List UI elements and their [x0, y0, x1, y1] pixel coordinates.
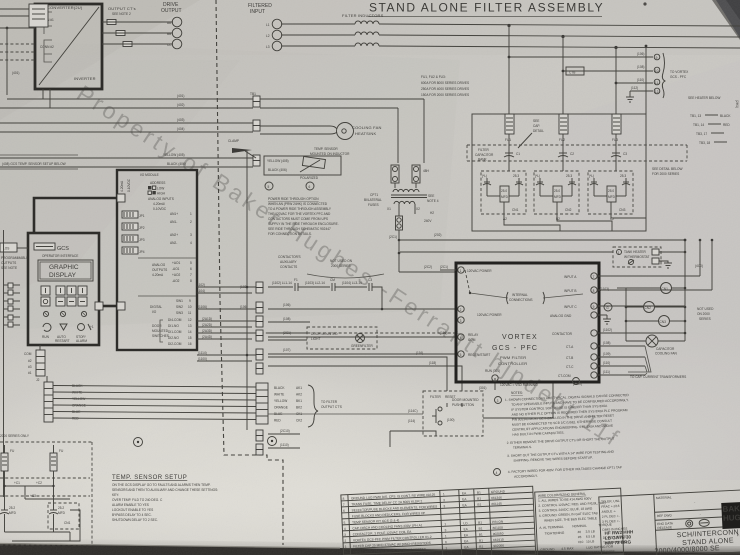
detail wires upper	[3, 471, 70, 504]
baker hughes logo block	[721, 502, 740, 529]
svg-text:CPT1: CPT1	[370, 193, 378, 197]
vortex terminal 5 regen start	[458, 351, 491, 357]
detail cap A	[0, 504, 17, 532]
svg-text:+1: +1	[90, 325, 94, 329]
svg-text:RED: RED	[274, 419, 281, 423]
svg-text:2: 2	[460, 308, 462, 312]
svg-text:SEE: SEE	[428, 194, 434, 198]
svg-text:902050: 902050	[493, 532, 504, 536]
svg-text:(202): (202)	[434, 233, 441, 237]
temp sensor label	[310, 147, 350, 156]
svg-text:+AO2: +AO2	[172, 273, 180, 277]
svg-text:ANALOG INPUTS: ANALOG INPUTS	[148, 197, 174, 201]
detail cap band dashed	[0, 478, 90, 496]
ground ref wire 112	[630, 86, 653, 97]
title block	[599, 490, 740, 555]
svg-text:LIGHT: LIGHT	[311, 337, 320, 341]
svg-text:ANALOG GND: ANALOG GND	[550, 314, 572, 318]
svg-text:TEMP. SENSOR: TEMP. SENSOR	[314, 147, 338, 151]
cap detail box B	[534, 171, 579, 214]
fuse below CPT1	[389, 211, 403, 239]
svg-text:150A FOR 2000 SERIES DRIVES: 150A FOR 2000 SERIES DRIVES	[421, 93, 469, 97]
wire 402 to CPT drop	[260, 108, 398, 163]
svg-text:TEMP. SENSOR SETUP: TEMP. SENSOR SETUP	[112, 475, 187, 481]
svg-text:BLACK: BLACK	[274, 386, 285, 390]
svg-text:4.5 MAX: 4.5 MAX	[561, 546, 574, 551]
I/O module title	[140, 173, 159, 177]
tank heater dashed box	[613, 247, 661, 267]
svg-text:0-10VDC: 0-10VDC	[153, 207, 167, 211]
svg-text:#2: #2	[28, 359, 32, 363]
TB1 terminals 405/406	[253, 155, 260, 166]
svg-text:DI2-COM: DI2-COM	[168, 342, 182, 346]
label (401) left	[12, 71, 19, 75]
vortex terminal input B	[564, 287, 597, 293]
svg-text:(401): (401)	[12, 71, 19, 75]
svg-text:C1: C1	[516, 152, 520, 156]
TB pair 2 below color block	[256, 443, 300, 455]
not used 2000 series right	[697, 307, 714, 321]
svg-text:AK2: AK2	[296, 393, 302, 397]
svg-text:B1: B1	[477, 491, 481, 495]
svg-text:1/16: 1/16	[613, 504, 620, 508]
wire 118 down to pushbutton	[268, 361, 462, 391]
bracket to vortex gcs pfc	[662, 53, 689, 98]
svg-text:I/O: I/O	[152, 310, 157, 314]
wire 401	[7, 94, 253, 99]
TB1 terminals 401/402	[253, 96, 260, 107]
color wire terminal block right	[256, 383, 268, 424]
svg-text:MATERIAL: MATERIAL	[656, 495, 672, 500]
fuse drop A	[508, 25, 510, 114]
vortex CT-B	[566, 352, 645, 360]
COM terminal strip under GCS	[24, 345, 47, 382]
indicator fuse F1	[391, 165, 399, 183]
cap symbol phase C	[611, 134, 627, 171]
svg-text:G: G	[606, 306, 609, 310]
svg-text:FOR CONNECTION DETAILS.: FOR CONNECTION DETAILS.	[268, 232, 312, 236]
svg-text:INPUT B: INPUT B	[564, 289, 577, 293]
heater below note	[688, 96, 720, 100]
svg-text:(107): (107)	[283, 348, 290, 352]
svg-text:REGEN/START: REGEN/START	[468, 353, 490, 357]
svg-text:6: 6	[445, 540, 447, 544]
svg-text:#6: #6	[578, 530, 582, 534]
svg-text:INVERTER: INVERTER	[74, 76, 96, 81]
power ride through note	[268, 197, 339, 236]
svg-text:+C3: +C3	[30, 494, 36, 498]
svg-text:10 LB: 10 LB	[586, 539, 595, 543]
svg-text:MOUNTED ON INDUCTOR: MOUNTED ON INDUCTOR	[310, 152, 350, 156]
svg-text:BK1: BK1	[296, 399, 302, 403]
svg-text:OUTPUTS: OUTPUTS	[152, 268, 167, 272]
jumper JP2	[122, 223, 145, 230]
door mounted pushbutton label	[452, 398, 479, 407]
svg-text:SEE HEATER BELOW: SEE HEATER BELOW	[688, 96, 720, 100]
svg-text:OPERATOR INTERFACE: OPERATOR INTERFACE	[42, 254, 78, 258]
vortex CT-COM	[558, 370, 645, 378]
IO analog outputs	[138, 258, 196, 283]
svg-text:NOMINAL: NOMINAL	[572, 524, 587, 529]
svg-text:ACCORDINGLY.: ACCORDINGLY.	[514, 474, 538, 479]
svg-text:CONNECTIONS: CONNECTIONS	[509, 298, 533, 302]
svg-text:CAP.: CAP.	[533, 124, 540, 128]
cap detail box C	[588, 171, 633, 214]
svg-text:(109): (109)	[603, 352, 610, 356]
I/O address block	[148, 181, 174, 211]
svg-text:TO A POWER RIDE THROUGH ASSEMB: TO A POWER RIDE THROUGH ASSEMBLY	[268, 207, 332, 211]
output CT wire labels AK BK CK	[296, 386, 302, 423]
svg-text:CTB: CTB	[569, 71, 575, 75]
svg-text:#8: #8	[578, 535, 582, 539]
svg-text:(106): (106)	[440, 331, 447, 335]
right edge labels TB	[690, 114, 731, 145]
svg-text:2: 2	[575, 380, 577, 384]
aux contact row	[268, 278, 382, 309]
color wire terminal block left	[36, 378, 53, 422]
svg-text:(2H1): (2H1)	[735, 100, 739, 108]
IO to TB wires	[197, 287, 256, 361]
svg-text:(112): (112)	[631, 86, 638, 90]
rotated label H1	[735, 100, 739, 108]
color labels right of block	[274, 386, 288, 423]
svg-text:MFD: MFD	[58, 511, 66, 515]
svg-text:AN1+: AN1+	[170, 212, 178, 216]
wire color sizing general block	[535, 488, 624, 555]
node at x7 y28	[0, 27, 35, 95]
svg-text:J2: J2	[36, 378, 40, 382]
top-right dark corner	[716, 0, 740, 38]
jumper JP4	[122, 247, 145, 254]
svg-text:TB3, 18: TB3, 18	[699, 141, 710, 145]
wire 402	[0, 103, 253, 108]
svg-text:BLACK (406): BLACK (406)	[268, 168, 287, 172]
wire 406 black	[0, 162, 253, 167]
phase C drive output node	[167, 39, 182, 49]
svg-text:C3: C3	[368, 278, 372, 282]
svg-text:(106): (106)	[637, 52, 644, 56]
svg-text:SW1: SW1	[176, 299, 183, 303]
svg-text:ADDRESS: ADDRESS	[150, 181, 165, 185]
watermark	[72, 80, 626, 452]
svg-text:(404): (404)	[177, 127, 184, 131]
svg-text:KEY:: KEY:	[112, 493, 119, 497]
vortex terminal 4 relay com	[458, 333, 479, 342]
label output cts	[108, 6, 136, 16]
svg-text:25.0: 25.0	[501, 189, 507, 193]
2000 series detail dashed box	[0, 442, 92, 545]
svg-text:DOOR: DOOR	[152, 324, 162, 328]
svg-text:STAND ALONE FILTER ASSEMBLY: STAND ALONE FILTER ASSEMBLY	[369, 1, 604, 15]
svg-text:L2: L2	[266, 34, 270, 38]
svg-text:FU: FU	[59, 449, 64, 453]
svg-text:MFD: MFD	[501, 195, 509, 199]
svg-text:HAS BUILT-IN PWM CAPABILITIES.: HAS BUILT-IN PWM CAPABILITIES.	[512, 431, 564, 437]
TB column terminals 107	[256, 349, 263, 360]
fuse note text	[421, 75, 469, 97]
svg-text:GCS - PFC: GCS - PFC	[670, 75, 687, 79]
svg-text:REF DWG: REF DWG	[657, 513, 673, 518]
wire 106 to vortex	[268, 303, 456, 310]
svg-text:ALARM ENABLE TO YES: ALARM ENABLE TO YES	[112, 503, 149, 507]
svg-text:HUG: HUG	[723, 513, 740, 523]
svg-text:HIGH: HIGH	[157, 192, 166, 196]
svg-text:16: 16	[188, 342, 192, 346]
vortex feed tap C	[615, 78, 653, 84]
svg-text:600A FOR 8000 SERIES DRIVES: 600A FOR 8000 SERIES DRIVES	[421, 81, 469, 85]
svg-text:SW2: SW2	[176, 305, 183, 309]
svg-text:250A FOR 4000 SERIES DRIVES: 250A FOR 4000 SERIES DRIVES	[421, 87, 469, 91]
svg-text:CAPACITOR: CAPACITOR	[656, 347, 675, 351]
svg-text:11: 11	[655, 81, 659, 85]
svg-text:FILTER: FILTER	[478, 148, 489, 152]
svg-text:(2C10): (2C10)	[280, 429, 290, 433]
TB column terminals 2C1	[256, 316, 263, 327]
svg-text:120VAC POWER: 120VAC POWER	[477, 313, 502, 317]
svg-text:YELLOW: YELLOW	[274, 399, 287, 403]
assembly boundary dashed line	[216, 0, 283, 545]
svg-text:LO: LO	[463, 521, 468, 525]
svg-text:1: 1	[445, 534, 447, 538]
svg-text:9: 9	[656, 56, 658, 60]
CPT1 label	[364, 193, 382, 207]
circled 7 marker	[134, 438, 143, 447]
color wire bundle	[53, 386, 256, 420]
svg-text:AN1-: AN1-	[170, 220, 177, 224]
svg-text:6: 6	[190, 267, 192, 271]
svg-text:INPUT A: INPUT A	[564, 275, 577, 279]
svg-text:LOCKOUT ENABLE TO YES: LOCKOUT ENABLE TO YES	[112, 508, 153, 512]
vortex analog gnd	[550, 312, 611, 324]
circled G right	[604, 303, 612, 311]
TB pair below color block	[256, 429, 300, 441]
svg-text:5: 5	[268, 185, 270, 189]
paper edge shadow above bottom cut	[0, 538, 740, 552]
circled 8 marker	[268, 437, 277, 446]
svg-text:+C2: +C2	[36, 481, 42, 485]
svg-text:WHITE: WHITE	[274, 393, 284, 397]
svg-text:661145: 661145	[491, 502, 502, 506]
svg-text:SENSORS AND THEN TO AUXILIARY: SENSORS AND THEN TO AUXILIARY AND CHANGE…	[112, 488, 218, 492]
svg-text:11: 11	[188, 311, 192, 315]
I/O rotated side label upper	[120, 178, 131, 192]
svg-text:4. FACTORY WIRED FOR 480V. FO: 4. FACTORY WIRED FOR 480V. FOR OTHER VOL…	[508, 465, 622, 474]
svg-text:(2C1): (2C1)	[440, 265, 448, 269]
GCS operator interface label	[42, 254, 78, 258]
svg-text:25.0: 25.0	[554, 189, 560, 193]
svg-text:4: 4	[344, 527, 346, 531]
svg-text:(114C): (114C)	[408, 409, 418, 413]
svg-text:661910: 661910	[493, 538, 504, 542]
svg-text:CAPACITOR: CAPACITOR	[475, 153, 494, 157]
svg-text:B1: B1	[478, 527, 482, 531]
fuse FU1	[505, 114, 514, 142]
GCS keypad buttons	[41, 286, 87, 306]
circled 4 marker	[494, 469, 501, 476]
svg-text:CONTACTORS MUST COME FROM UPS: CONTACTORS MUST COME FROM UPS	[268, 217, 328, 221]
svg-text:VORTEX: VORTEX	[502, 334, 538, 341]
svg-text:(402): (402)	[177, 103, 184, 107]
wire regen start to vortex	[268, 348, 456, 354]
svg-text:2. EITHER REMOVE THE DRIVE OU: 2. EITHER REMOVE THE DRIVE OUTPUT CT's O…	[507, 437, 615, 445]
svg-text:TO FILTER: TO FILTER	[321, 400, 338, 404]
contactor coil CN2	[625, 302, 685, 313]
svg-text:#3: #3	[28, 365, 32, 369]
svg-text:(108): (108)	[637, 65, 644, 69]
svg-text:1: 1	[345, 545, 347, 549]
svg-text:+C1: +C1	[14, 481, 20, 485]
svg-text:25.2: 25.2	[9, 506, 15, 510]
svg-text:ORANGE: ORANGE	[274, 406, 288, 410]
label 4C0	[695, 264, 703, 268]
svg-text:1: 1	[460, 269, 462, 273]
svg-text:COM: COM	[24, 352, 32, 356]
vortex CT-A	[566, 341, 645, 349]
transformer CPT1	[387, 183, 434, 223]
svg-text:CT-C: CT-C	[566, 365, 574, 369]
svg-text:A. AL TERMINAL: A. AL TERMINAL	[539, 525, 564, 530]
svg-text:3: 3	[497, 399, 499, 403]
svg-text:14: 14	[188, 330, 192, 334]
svg-text:(110): (110)	[637, 78, 644, 82]
wires into door light	[268, 333, 307, 340]
svg-text:2: 2	[344, 539, 346, 543]
L3 input node	[266, 41, 282, 51]
svg-text:1: 1	[444, 522, 446, 526]
vortex title	[492, 334, 538, 366]
TB1 terminals 403/404	[253, 120, 260, 131]
svg-text:13: 13	[188, 324, 192, 328]
svg-text:3: 3	[443, 498, 445, 502]
svg-text:GROUND: GROUND	[491, 489, 506, 494]
svg-text:0-10VDC: 0-10VDC	[127, 178, 131, 192]
wire phase B converter to node	[102, 32, 173, 34]
detail bottom wires	[5, 510, 81, 541]
wire 404	[0, 127, 253, 132]
title	[368, 1, 604, 17]
svg-text:FRAC +-: FRAC +-	[601, 504, 614, 509]
svg-text:-AO1: -AO1	[172, 267, 180, 271]
cap detail box A	[481, 171, 526, 214]
wire stub y430	[390, 431, 436, 447]
svg-text:FU1: FU1	[505, 138, 511, 142]
dashed wires into converter left	[0, 44, 35, 60]
bottom paper edge shadowline	[0, 544, 340, 549]
svg-text:(116): (116)	[416, 351, 423, 355]
svg-text:15: 15	[188, 336, 192, 340]
svg-text:B1: B1	[477, 497, 481, 501]
brace to filter output CTs	[308, 385, 342, 427]
svg-text:CT-COM: CT-COM	[558, 374, 571, 378]
svg-text:RED: RED	[723, 123, 730, 127]
phase exit labels A2 B2 C2	[503, 217, 614, 221]
svg-text:GCS - PFC: GCS - PFC	[492, 345, 538, 352]
svg-text:4: 4	[496, 471, 498, 475]
svg-text:SERIES: SERIES	[699, 317, 711, 321]
svg-text:RUN (301): RUN (301)	[485, 369, 500, 373]
contactor coil CN1	[626, 283, 685, 294]
svg-text:CLAMP: CLAMP	[228, 139, 239, 143]
svg-text:INPUT C: INPUT C	[564, 305, 577, 309]
svg-text:6.0 MAX: 6.0 MAX	[561, 551, 574, 555]
svg-text:(401): (401)	[177, 94, 184, 98]
svg-text:SEE DETAIL BELOW: SEE DETAIL BELOW	[652, 167, 682, 171]
clamp symbol	[228, 139, 256, 158]
svg-text:OUTPUT CT's: OUTPUT CT's	[108, 6, 136, 11]
vortex terminal 1	[458, 267, 492, 273]
svg-text:NOT USED ON: NOT USED ON	[330, 259, 353, 263]
2000 series only label	[0, 434, 30, 438]
svg-text:CONTACTS: CONTACTS	[280, 265, 297, 269]
svg-text:SEE RIDE THROUGH SCHEMATIC 902: SEE RIDE THROUGH SCHEMATIC 902447	[268, 227, 331, 231]
temp sensor setup body	[112, 483, 218, 522]
door mounted pushbutton box	[423, 391, 483, 436]
svg-text:PWM FILTER: PWM FILTER	[500, 355, 526, 360]
svg-text:(1103) LL2-14: (1103) LL2-14	[305, 281, 325, 285]
svg-text:CN3: CN3	[660, 320, 667, 324]
svg-text:5: 5	[344, 521, 346, 525]
svg-text:(*L): (*L)	[482, 174, 487, 178]
vortex terminal input A	[564, 273, 597, 279]
svg-text:4: 4	[460, 336, 462, 340]
svg-text:3: 3	[190, 233, 192, 237]
svg-text:(4C0): (4C0)	[695, 264, 703, 268]
svg-text:(1102) LL1-14: (1102) LL1-14	[272, 281, 292, 285]
svg-text:FU: FU	[10, 449, 15, 453]
see note 4	[427, 194, 439, 203]
svg-text:3: 3	[460, 319, 462, 323]
svg-text:(118): (118)	[429, 361, 436, 365]
svg-text:NOTE 4: NOTE 4	[427, 199, 439, 203]
svg-text:9: 9	[593, 305, 595, 309]
svg-text:(1114): (1114)	[198, 351, 207, 355]
svg-text:902056: 902056	[493, 544, 504, 548]
svg-text:JP2: JP2	[139, 226, 145, 230]
svg-text:(1102): (1102)	[196, 283, 205, 287]
notes heading	[511, 391, 523, 395]
svg-text:FILTER: FILTER	[430, 395, 441, 399]
svg-text:-: -	[694, 500, 695, 504]
see cap detail note	[518, 119, 544, 148]
svg-text:8: 8	[342, 497, 344, 501]
label 1100	[573, 382, 582, 386]
svg-text:(1106): (1106)	[198, 305, 207, 309]
svg-text:SUPPLY IN THE RIDE THROUGH ENC: SUPPLY IN THE RIDE THROUGH ENCLOSURE.	[268, 222, 339, 226]
svg-text:INPUT: INPUT	[250, 9, 265, 15]
svg-text:DIGITAL: DIGITAL	[150, 305, 162, 309]
svg-text:2000 SERIES: 2000 SERIES	[331, 264, 351, 268]
note 408 temp sensor below	[0, 155, 78, 169]
svg-text:FU3: FU3	[612, 138, 618, 142]
IO digital pins	[138, 296, 196, 346]
svg-text:B1: B1	[477, 503, 481, 507]
svg-text:4-20mA: 4-20mA	[120, 180, 124, 192]
svg-text:RESTART: RESTART	[55, 339, 70, 343]
circled note 6	[306, 182, 314, 190]
svg-text:1: 1	[445, 546, 447, 550]
TB1 label	[250, 92, 256, 96]
junction dots on fuse drops	[507, 24, 617, 49]
vortex 120vac power label2	[477, 313, 502, 317]
vortex terminal 2	[458, 306, 464, 312]
LOS box left	[0, 243, 28, 252]
svg-text:3: 3	[344, 533, 346, 537]
svg-text:TANK HEATER: TANK HEATER	[624, 250, 647, 254]
svg-text:9: 9	[189, 299, 191, 303]
svg-text:DI2-NO: DI2-NO	[168, 336, 179, 340]
label drive output	[161, 2, 182, 14]
wire 2C1 row mid	[268, 317, 310, 322]
